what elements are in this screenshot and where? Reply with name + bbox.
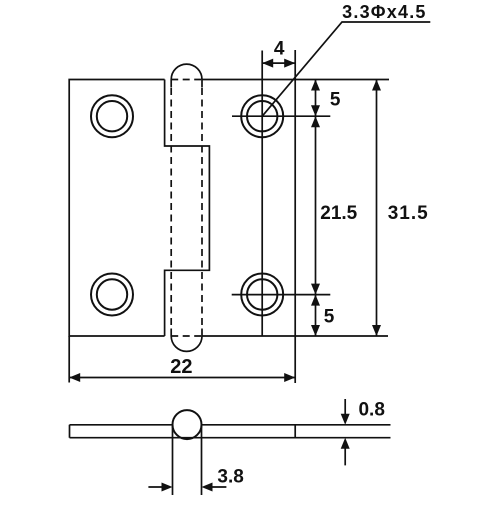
svg-text:5: 5 [324, 307, 335, 328]
svg-text:5: 5 [330, 90, 341, 111]
svg-text:3.3Φx4.5: 3.3Φx4.5 [342, 2, 426, 22]
svg-text:31.5: 31.5 [388, 203, 429, 224]
svg-text:22: 22 [170, 356, 192, 378]
svg-text:4: 4 [274, 39, 285, 60]
svg-text:0.8: 0.8 [358, 400, 384, 421]
svg-text:3.8: 3.8 [217, 467, 243, 488]
svg-text:21.5: 21.5 [320, 203, 357, 224]
